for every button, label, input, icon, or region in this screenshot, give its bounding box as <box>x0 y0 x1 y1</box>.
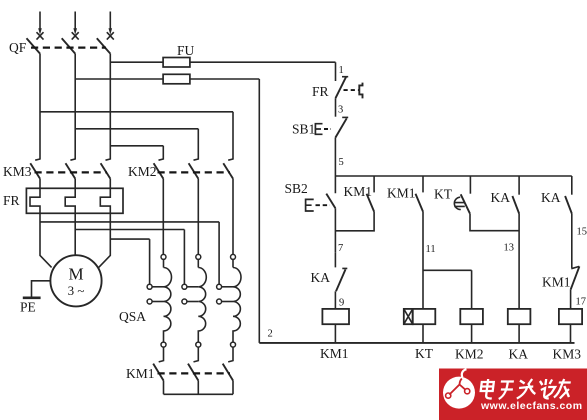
svg-text:KM1: KM1 <box>542 275 571 290</box>
stylized chinese glyphs <box>480 379 571 399</box>
svg-text:11: 11 <box>426 244 436 255</box>
wire coil KM1 to bottom bus <box>334 324 336 343</box>
contactor KM1 pole 3 <box>228 347 233 362</box>
svg-text:13: 13 <box>504 243 515 254</box>
relay contact KA (NC) blade <box>335 252 347 268</box>
fuse FU2 body <box>163 74 190 84</box>
svg-text:PE: PE <box>20 300 36 315</box>
wire node11 down <box>422 212 424 309</box>
pushbutton SB2 (NO) blade <box>326 194 335 209</box>
svg-text:QF: QF <box>9 40 27 55</box>
svg-text:KT: KT <box>415 346 434 361</box>
wire node3 to node5 <box>334 138 336 176</box>
svg-text:KM3: KM3 <box>553 347 582 362</box>
elecfans watermark <box>439 369 587 420</box>
coil KM3 <box>559 309 582 324</box>
svg-text:KA: KA <box>509 347 529 362</box>
svg-text:KA: KA <box>541 190 561 205</box>
contactor KM3 linkage dashed <box>35 171 108 173</box>
contactor KM2 linkage dashed <box>158 171 231 173</box>
wire phase3 branch to KM2 pole1 <box>110 146 163 160</box>
relay contact KA1 (NO) <box>518 176 520 195</box>
svg-text:www.elecfans.com: www.elecfans.com <box>480 400 583 412</box>
coil KT with delay box <box>404 309 413 324</box>
pushbutton SB1 actuator E <box>315 124 322 135</box>
supply arrow L1 <box>37 12 44 40</box>
supply arrow L3 <box>107 12 114 40</box>
svg-text:FR: FR <box>3 193 20 208</box>
coil KM2 <box>460 309 483 324</box>
wire KM3 poles to FR <box>40 179 110 189</box>
contactor KM3 pole 2 <box>70 159 75 160</box>
contactor KM2 pole 1 <box>159 159 164 160</box>
wire node1 to node3 <box>335 98 337 117</box>
QSA winding 2 <box>182 254 206 347</box>
contactor KM1 pole 1 <box>159 347 164 362</box>
svg-text:KA: KA <box>491 190 511 205</box>
wire phase3 to fuse1 and control <box>110 62 335 81</box>
svg-text:1: 1 <box>339 65 344 76</box>
breaker QF linkage dashed <box>31 46 106 48</box>
relay contact KA2 (NO) <box>571 176 573 195</box>
breaker QF pole 1 blade <box>27 38 41 53</box>
svg-text:KM1: KM1 <box>320 346 349 361</box>
QSA winding 1 <box>147 254 171 347</box>
FR heater element 1 <box>30 188 40 213</box>
timed contact KT (NO) blade <box>469 176 471 194</box>
QSA winding 3 <box>217 254 241 347</box>
svg-text:SB1: SB1 <box>292 122 315 137</box>
svg-text:9: 9 <box>339 298 344 309</box>
wire phase1 branch to KM2 pole3 <box>40 112 233 160</box>
breaker QF pole 3 blade <box>97 38 111 53</box>
svg-text:FR: FR <box>312 84 329 99</box>
svg-text:17: 17 <box>576 297 587 308</box>
svg-text:KA: KA <box>311 270 331 285</box>
wire KM2 pole3 down to winding3 <box>232 179 234 255</box>
svg-text:KM1: KM1 <box>387 186 416 201</box>
svg-text:FU: FU <box>177 43 195 58</box>
motor M circle <box>50 255 101 306</box>
svg-text:KM1: KM1 <box>126 366 155 381</box>
svg-text:M: M <box>68 265 83 284</box>
wire motor lead 1 <box>40 213 52 267</box>
FR heater element 2 <box>65 188 75 213</box>
wire phase2 vertical <box>74 54 76 160</box>
wire tap feed 1 (lead3 to winding1 tap) <box>110 239 149 284</box>
pushbutton SB1 dashes <box>324 128 331 130</box>
pushbutton SB1 (NC) blade <box>342 116 348 118</box>
pushbutton SB2 actuator E <box>306 199 314 211</box>
timed contact KT delay symbol <box>454 197 465 209</box>
contactor KM2 pole 2 <box>194 159 199 160</box>
wire KM2 pole1 down to winding1 <box>162 179 164 255</box>
wire KT contact join to node13 <box>470 214 519 231</box>
wire to KM1 contact <box>571 214 573 268</box>
wire tap feed 3 (lead1 to winding3 tap) <box>40 222 219 284</box>
pushbutton SB2 dashes <box>316 204 331 206</box>
supply arrow L2 <box>72 12 79 40</box>
contact KM1 branch2 (NO) <box>422 176 424 192</box>
wire phase3 vertical <box>109 54 111 160</box>
FR heater element 3 <box>100 188 110 213</box>
wire KM1 selfhold join <box>335 212 374 231</box>
contactor KM3 pole 1 <box>35 159 40 160</box>
svg-text:QSA: QSA <box>119 309 146 324</box>
wire phase2 branch to KM2 pole2 <box>75 129 198 160</box>
wire branch to KM2 coil <box>423 270 472 309</box>
thermal contact FR (NC) blade <box>342 76 348 78</box>
thermal relay FR box <box>26 188 123 213</box>
contact KM1 right (NO mirrored) <box>571 266 579 268</box>
svg-text:7: 7 <box>338 243 343 254</box>
svg-text:2: 2 <box>268 329 273 340</box>
wire bottom bus <box>259 342 574 344</box>
wire phase1 vertical <box>39 54 41 160</box>
svg-text:KM2: KM2 <box>455 347 484 362</box>
wire KA to node9 <box>334 291 336 309</box>
svg-text:3 ~: 3 ~ <box>68 283 85 298</box>
wire phase2 to fuse2 and control <box>75 79 259 343</box>
wire SB2 down to node7 <box>334 176 336 252</box>
wire coil KA to bottom bus <box>518 324 520 343</box>
wire node17 down <box>570 290 572 309</box>
breaker QF pole 2 blade <box>62 38 75 53</box>
wire KM1 star shorting bus <box>164 381 234 395</box>
wire motor lead 2 <box>74 213 76 255</box>
contactor KM3 pole 3 <box>106 159 111 160</box>
thermal contact FR dashes <box>344 89 359 91</box>
fuse FU1 body <box>163 58 190 68</box>
contactor KM1 linkage dashed <box>158 372 231 374</box>
ground PE bar <box>23 296 41 299</box>
wire KM2 pole2 down to winding2 <box>197 179 199 255</box>
wire node13 down <box>518 214 520 309</box>
coil KA <box>508 309 531 324</box>
coil KM1 <box>322 309 349 324</box>
svg-text:5: 5 <box>339 157 344 168</box>
svg-text:3: 3 <box>338 105 343 116</box>
wire PE <box>32 281 51 297</box>
contactor KM2 pole 3 <box>228 159 233 160</box>
wire coil KM2 to bottom bus <box>471 324 473 343</box>
svg-text:KT: KT <box>434 187 453 202</box>
wire coil KT to bottom bus <box>422 324 424 343</box>
contact KM1 selfhold (NO) <box>373 176 375 192</box>
wire motor lead 3 <box>99 213 111 267</box>
svg-text:SB2: SB2 <box>285 181 308 196</box>
contactor KM1 pole 2 <box>194 347 199 362</box>
svg-text:15: 15 <box>577 227 587 238</box>
svg-text:KM2: KM2 <box>128 164 157 179</box>
thermal contact FR trip symbol <box>359 83 362 99</box>
wire node5 bus <box>335 175 571 177</box>
wire tap feed 2 (lead2 to winding2 tap) <box>75 230 184 285</box>
wire coil KM3 to bottom bus <box>570 324 572 343</box>
svg-text:KM3: KM3 <box>3 164 32 179</box>
